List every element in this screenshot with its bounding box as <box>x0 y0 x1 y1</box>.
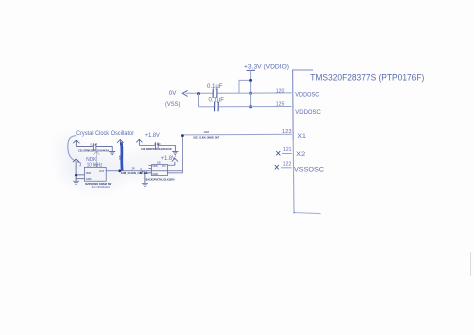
junction dot on left bus <box>75 174 77 176</box>
power flag F2 (right bypass) <box>136 139 142 145</box>
wire U5 output up to X1 net <box>167 135 182 173</box>
svg-text:BACKUP(XTAL/CLK)SRV: BACKUP(XTAL/CLK)SRV <box>146 177 175 181</box>
power flag F1 (left bypass) <box>73 140 79 146</box>
wire loop left branch <box>239 80 251 93</box>
svg-text:120: 120 <box>276 88 285 94</box>
wire stub pin 122 VSSOSC <box>281 167 292 169</box>
arrow to 0V <box>182 90 187 96</box>
power flag F5 (left bus top) <box>73 159 79 162</box>
svg-text:0.1uF: 0.1uF <box>90 143 97 147</box>
wire left bus vertical <box>75 162 77 181</box>
junction dot at X1 corner <box>181 134 184 137</box>
wire bypass row1 <box>76 145 93 147</box>
ground G3 (bus bottom) <box>73 181 79 184</box>
svg-text:VSSOSC: VSSOSC <box>294 167 324 174</box>
svg-text:VDDOSC: VDDOSC <box>295 109 321 116</box>
capacitor C1 0.1uF plates <box>212 89 214 99</box>
svg-text:0V: 0V <box>169 90 177 97</box>
svg-text:+1.8V: +1.8V <box>161 155 177 162</box>
wire bypass row2 <box>139 144 155 146</box>
svg-text:VDD: VDD <box>152 164 158 168</box>
svg-text:121: 121 <box>283 147 292 153</box>
buffer U5 body <box>151 165 167 176</box>
svg-text:OUT: OUT <box>99 169 105 173</box>
svg-text:VO: VO <box>162 164 166 168</box>
highlighted wire thick blue vertical <box>120 142 124 170</box>
svg-text:+1.8V: +1.8V <box>145 132 161 139</box>
svg-text:VDD: VDD <box>86 171 92 175</box>
power flag F6 (U5 VDD +1.8V) <box>172 158 178 161</box>
capacitor C33 plates <box>156 142 159 148</box>
svg-text:GND: GND <box>152 172 158 176</box>
svg-text:X2: X2 <box>296 151 305 158</box>
svg-text:0.1µF: 0.1µF <box>207 84 223 90</box>
no-connect x mark at VSSOSC <box>275 165 279 169</box>
wire row1 left segment <box>186 92 214 94</box>
junction dot row2 <box>249 105 252 108</box>
svg-text:(VSS): (VSS) <box>165 101 181 108</box>
svg-text:TMS320F28377S (PTP0176F): TMS320F28377S (PTP0176F) <box>310 72 424 82</box>
no-connect x mark at X2 <box>276 151 280 155</box>
faint scan haze <box>58 136 180 188</box>
power tick under +3.3V <box>247 69 256 71</box>
wire vertical from +3.3V down to row1 <box>250 71 252 94</box>
svg-text:C31 GRM155R61A104KA0: C31 GRM155R61A104KA0 <box>78 148 109 152</box>
printed fragment below <box>73 135 182 186</box>
power flag F4 (top of highlighted net) <box>117 140 124 146</box>
svg-text:1V8: 1V8 <box>118 155 122 160</box>
svg-text:+3.3V (VDDIO): +3.3V (VDDIO) <box>244 64 289 71</box>
wire row2 right segment to pin 125 <box>219 106 292 108</box>
corner dot <box>293 212 295 214</box>
svg-text:XTAL: XTAL <box>140 171 148 175</box>
svg-text:0.1µF: 0.1µF <box>209 98 225 104</box>
svg-text:0.1uF: 0.1uF <box>154 142 161 146</box>
ground G2 <box>172 151 178 154</box>
leader curve from note to oscillator <box>68 136 81 167</box>
svg-text:2P: 2P <box>132 167 135 171</box>
wire U5 gnd <box>145 173 152 183</box>
chip boundary bracket bottom wire <box>294 213 321 214</box>
wire bus to osc pin1 <box>76 174 84 176</box>
junction dot top <box>249 79 252 82</box>
svg-text:X1: X1 <box>297 133 306 140</box>
wire vertical row1 to row2 <box>250 93 252 106</box>
wire X1 pin 123 long horizontal <box>182 133 291 136</box>
svg-text:123: 123 <box>282 129 292 135</box>
wire stub pin 121 X2 <box>282 153 292 155</box>
svg-text:U5: U5 <box>157 161 161 165</box>
oscillator Y1 body <box>84 167 106 181</box>
svg-text:OSC_CLKIN_10MHZ_OUT: OSC_CLKIN_10MHZ_OUT <box>193 135 219 139</box>
svg-text:Crystal Clock Oscillator: Crystal Clock Oscillator <box>76 130 134 137</box>
wire oscillator output <box>106 170 182 172</box>
svg-text:VDDOSC: VDDOSC <box>295 91 319 98</box>
wire bus to osc pin2 <box>76 178 84 180</box>
svg-text:GND: GND <box>86 177 92 181</box>
wire row2 left segment <box>199 106 215 108</box>
svg-text:10M: 10M <box>204 130 210 134</box>
wire row1 right segment to pin 120 <box>217 92 291 94</box>
svg-text:Y2: Y2 <box>94 164 98 168</box>
ground G5 (U5) <box>142 183 148 186</box>
wire U5 input pins <box>149 165 152 168</box>
wire vertical VSS node down <box>198 93 200 107</box>
svg-text:10.000MHz: 10.000MHz <box>91 185 111 189</box>
chip boundary bracket lower <box>292 140 295 213</box>
svg-text:C33 GRM155R61A104KA01D: C33 GRM155R61A104KA01D <box>141 147 172 151</box>
junction dot at VSS node <box>197 92 200 95</box>
power flag F3 (oscillator VDD, faint) <box>93 152 99 168</box>
svg-text:125: 125 <box>276 102 285 108</box>
ground G1 <box>109 152 115 155</box>
junction dot on oscillator output <box>118 169 121 172</box>
capacitor C31 plates <box>93 143 96 149</box>
faint scan artifact right edge <box>470 252 472 276</box>
capacitor C2 0.1uF plates <box>214 102 216 111</box>
svg-text:122: 122 <box>283 161 292 167</box>
wire U5 vdd to flag F6 <box>167 162 175 165</box>
op U1 TMS320F28377S chip boundary bracket top <box>293 70 313 140</box>
wire to ground row2 <box>158 145 175 151</box>
printed micro labels <box>78 130 219 189</box>
junction dot row1 <box>249 92 252 95</box>
wire to ground row1 <box>96 146 112 151</box>
